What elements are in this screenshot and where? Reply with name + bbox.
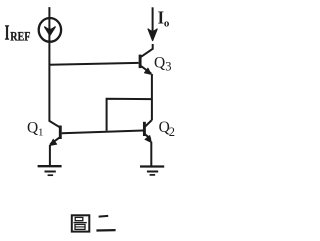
glyph 圖 outer box <box>72 215 90 231</box>
glyph 圖 lower box <box>75 224 85 229</box>
glyph 二 top stroke <box>99 215 109 218</box>
transistor Q3 emitter arrow <box>144 68 151 75</box>
transistor Q1 collector <box>49 121 60 128</box>
label Q3 <box>154 54 171 73</box>
transistor Q3 emitter <box>141 66 151 74</box>
label Io <box>158 8 170 30</box>
transistor Q1 emitter <box>50 137 60 144</box>
glyph 圖 lower box inner stroke <box>76 226 85 228</box>
transistor Q2 base bar <box>143 122 146 136</box>
label Q2 <box>159 119 175 139</box>
transistor Q1 emitter arrow <box>50 139 57 145</box>
wire: left vertical (IREF to Q1 collector) <box>48 7 50 121</box>
svg-text:3: 3 <box>165 59 171 73</box>
glyph 圖 inner small box <box>75 217 83 220</box>
wire: feedback loop (Q2 collector to base rail) <box>107 99 152 131</box>
svg-text:REF: REF <box>10 28 30 43</box>
Io arrowhead <box>148 29 157 41</box>
glyph 圖 middle stroke <box>74 222 87 224</box>
current source arrow <box>45 27 55 35</box>
svg-text:o: o <box>164 18 170 30</box>
svg-text:I: I <box>5 20 10 44</box>
svg-text:1: 1 <box>38 127 44 139</box>
transistor Q1 base bar <box>59 126 62 140</box>
ground (left) <box>38 166 62 175</box>
transistor Q2 emitter <box>145 134 151 139</box>
transistor Q2 emitter arrow <box>145 136 152 143</box>
transistor Q3 base bar <box>139 55 142 69</box>
wire: Q3 emitter down to Q2 collector <box>151 74 153 121</box>
svg-text:Q: Q <box>154 54 165 71</box>
current source IREF (circle) <box>39 18 61 42</box>
ground (right) <box>140 167 164 175</box>
transistor Q2 collector <box>145 120 152 126</box>
wire: Q1 emitter to ground <box>49 145 51 166</box>
wire: Io line <box>152 7 154 31</box>
wire: base rail Q1-Q2 <box>62 131 143 134</box>
svg-text:Q: Q <box>27 119 38 136</box>
wire: node A horizontal (IREF line to Q3 base) <box>49 63 138 65</box>
label Q1 <box>27 119 44 138</box>
label IREF <box>5 20 31 44</box>
wire: Q2 emitter to ground <box>150 142 152 166</box>
glyph 二 bottom stroke <box>96 229 115 232</box>
transistor Q3 collector <box>141 44 153 57</box>
caption 圖二 (drawn glyphs) <box>72 215 116 231</box>
svg-text:2: 2 <box>169 125 175 139</box>
